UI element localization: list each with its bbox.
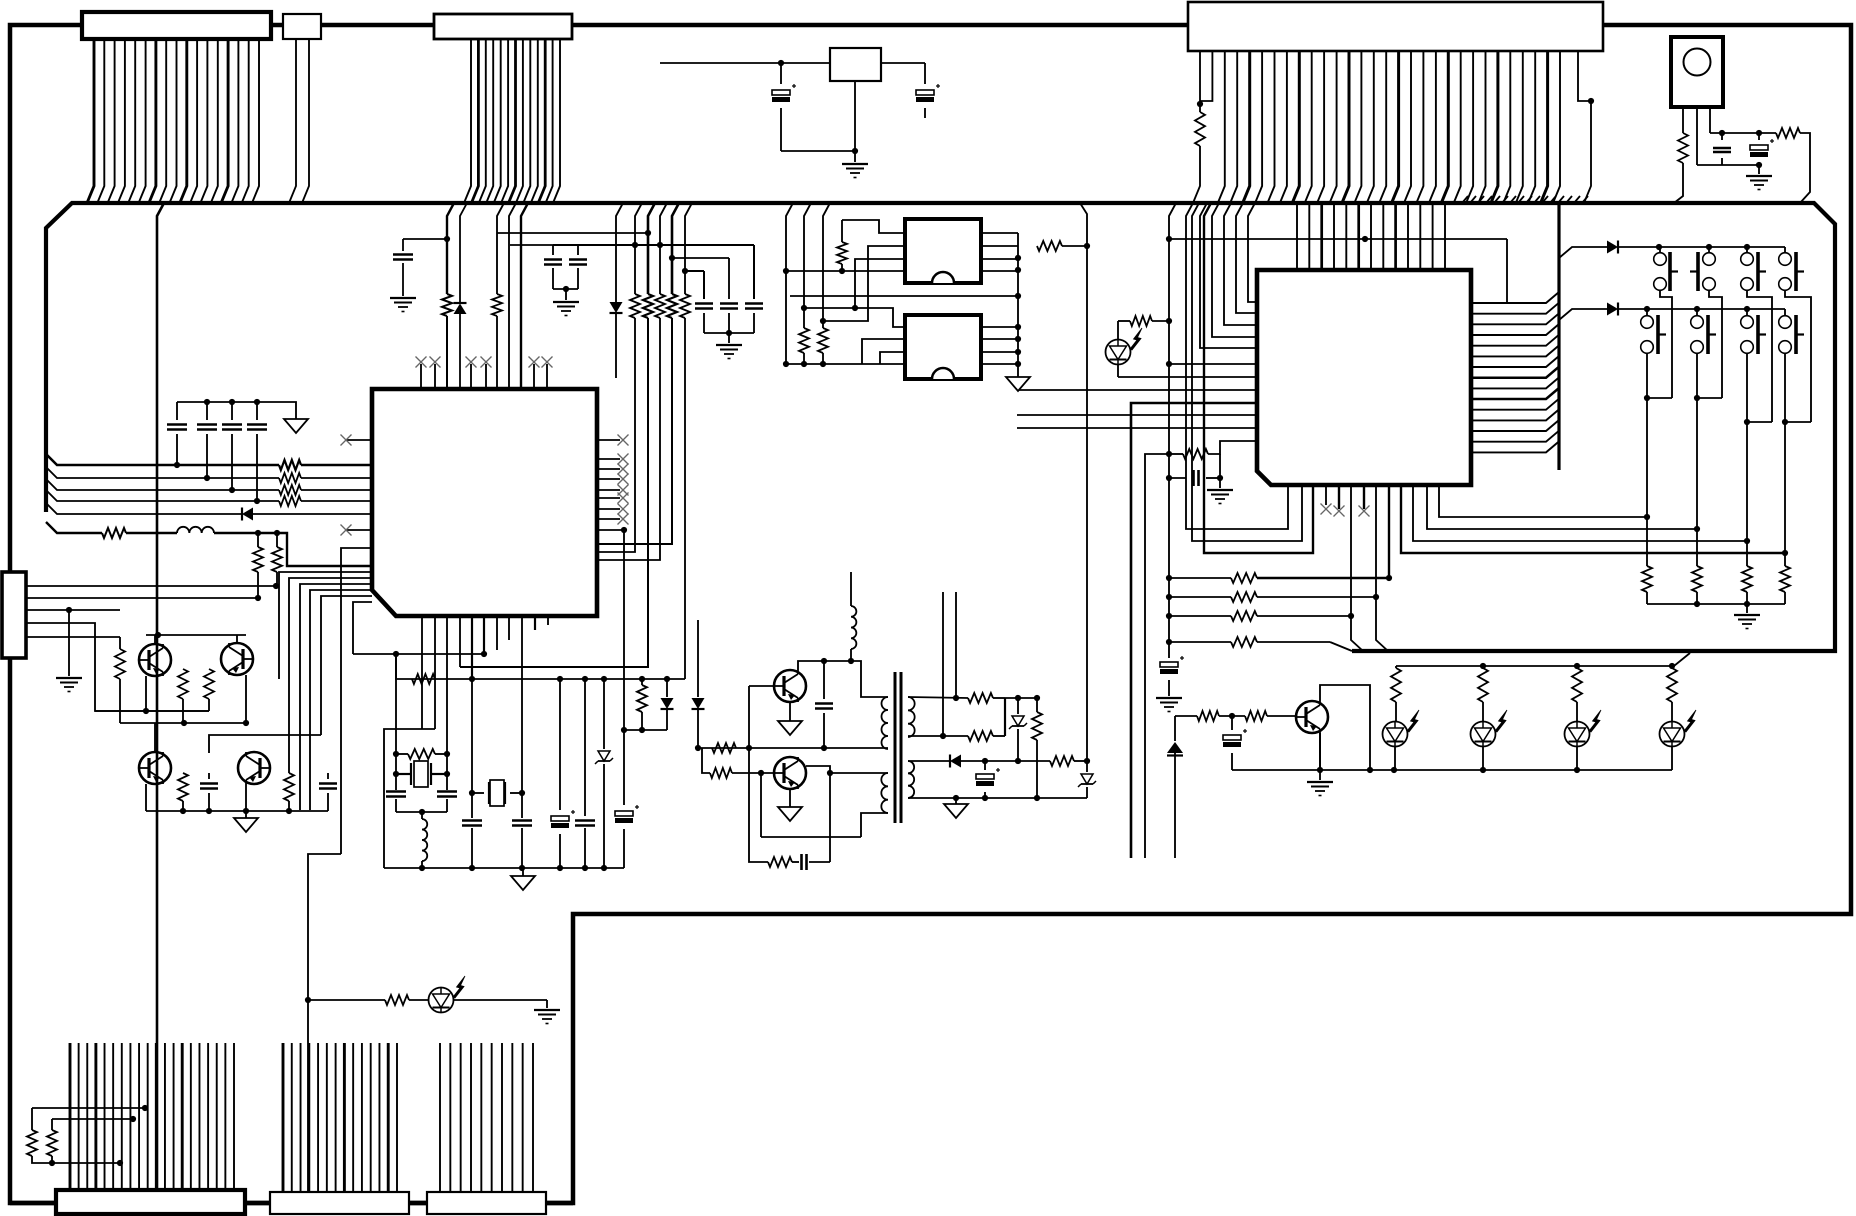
capacitor C filter2 [728, 258, 730, 299]
wire net616 with diode [616, 203, 623, 302]
wire bold pin403 [1131, 403, 1257, 858]
ground edge [68, 610, 70, 676]
diode D667 [666, 679, 668, 697]
wire U4 right pins [981, 326, 1018, 328]
ground triangle xtal rail [522, 868, 524, 876]
wire u3 feed to bus and down to zener [1080, 203, 1087, 761]
resistor R ir pullup [1776, 128, 1800, 138]
wire y748 to xfmr [698, 747, 888, 749]
wire IC1 right pin530 [597, 529, 624, 531]
wire row770 [1232, 769, 1672, 771]
switch SW3 [1746, 247, 1748, 252]
wire net A to caps [645, 230, 651, 236]
LED D ir-indicator [1106, 340, 1131, 365]
capacitor C rect electrolytic [984, 761, 986, 770]
resistor R key2 [1692, 566, 1702, 592]
connector CN2 (small) [283, 14, 321, 39]
connector CN3 [434, 14, 572, 39]
wire row239 [1169, 238, 1507, 240]
resistor R led4 [1671, 666, 1673, 668]
resistor R net685 [685, 203, 692, 294]
ground ir [1758, 165, 1760, 174]
wire U4 pin1 link [804, 308, 905, 327]
capacitor C xtal1b [437, 790, 457, 793]
wire IC2 bottom v1389 [1388, 485, 1390, 578]
resistor R drv1 [712, 743, 736, 753]
resistor R out [1050, 756, 1074, 766]
capacitor C ir electrolytic [1758, 133, 1760, 140]
resistor R led3 [1576, 666, 1578, 668]
capacitor C snub5 [823, 661, 825, 699]
resistor R led1 [1395, 666, 1397, 668]
wire U3 pin2 link [823, 246, 905, 321]
connector CN4 (main 30-pin) [1188, 2, 1603, 51]
capacitor C ir [1721, 133, 1723, 140]
diode D 1175 [1167, 742, 1183, 753]
wire bus-left wire1 (bold) [46, 454, 279, 465]
diode D key1 [1607, 241, 1618, 254]
ground rail xtal [384, 867, 624, 869]
capacitor C filter1 [703, 271, 705, 299]
resistor R cnA1 [32, 1107, 145, 1109]
connector CN6 pin fan [69, 1043, 72, 1190]
wire Q6 collector [806, 766, 888, 773]
wire bypass to ground [281, 402, 296, 419]
wire bus-left wire3 [46, 479, 279, 490]
resistor R emit Q4 [284, 773, 294, 801]
wire net D row271 [685, 270, 704, 272]
wire IC1 pin522 [521, 616, 523, 793]
wire row716 [1175, 715, 1197, 717]
wire snub up [829, 773, 831, 862]
wire col3 [1746, 353, 1748, 566]
wire key bus vertical (bold) [1557, 203, 1560, 470]
wire Q cluster top [146, 634, 246, 636]
wire col1 [1646, 353, 1648, 566]
wire key row1 feed [1559, 247, 1607, 258]
switch SW5 [1646, 309, 1648, 315]
resistor R net660 [660, 203, 667, 294]
crystal X1 node left [395, 654, 397, 790]
wire IC2 left pass-down bundle [1186, 203, 1288, 529]
resistor R cnA2 [52, 1118, 133, 1120]
transistor Q2 [221, 643, 253, 675]
transistor Q4 [238, 752, 270, 784]
wire led cathode [1117, 364, 1119, 377]
wire net308 down to CN_B [308, 854, 341, 1196]
wire IC2 bottom to bus v1351 [1351, 485, 1363, 651]
crystal X2 [488, 782, 490, 804]
switch SW4 [1784, 247, 1786, 252]
wire Q2 collector [236, 635, 238, 643]
resistor R u3 feed [1037, 241, 1062, 251]
resistor R key3 [1742, 566, 1752, 592]
wire col2 [1696, 353, 1698, 566]
resistor R led2 [385, 995, 409, 1005]
wire sec1 top lead [908, 697, 968, 698]
wire feeder group [289, 578, 372, 773]
connector CN4 pin fan [1200, 51, 1212, 101]
inductor L primary feed [850, 572, 852, 606]
wire Q3 feed [154, 723, 156, 752]
wire row364 to U4 [786, 363, 905, 365]
wire feed v956 [955, 592, 957, 698]
wire IC2 bottom nc pins [1325, 485, 1327, 505]
diode D key2 [1607, 303, 1618, 316]
capacitor C e624 electrolytic [623, 530, 625, 805]
wire row711 [95, 710, 209, 712]
connector CN3 pin fan [464, 39, 471, 203]
IC U1 (main microcontroller) [372, 389, 597, 616]
wire Q1 collector [154, 635, 156, 644]
wire row723 [120, 722, 246, 724]
zener D out [1086, 761, 1088, 772]
wire net B caps row [553, 244, 754, 246]
resistor R emit Q3 [178, 773, 188, 801]
IR leg1 with resistor [1682, 107, 1684, 133]
wire IC1 lower-left bundle [341, 548, 372, 854]
wire U3 pin3 link [855, 259, 905, 308]
ground under filter caps [716, 344, 742, 346]
wire U3 pin4 link [786, 270, 905, 272]
wire Q5 base [749, 685, 774, 687]
capacitor C input electrolytic [780, 63, 782, 84]
capacitor C q4 [327, 773, 329, 779]
IR leg3 node wire [1709, 107, 1711, 133]
resistor R led [1117, 321, 1119, 340]
wire U3 right pins [981, 232, 1018, 234]
wire led2 feed [308, 999, 385, 1001]
IC U2 (keyboard controller) [1257, 270, 1471, 485]
wire y730 [624, 729, 667, 731]
wire net823 [823, 203, 830, 328]
connector CN8 pin fan [439, 1043, 441, 1192]
regulator IC VR1 [830, 48, 881, 81]
LED D3 [1565, 722, 1590, 747]
resistor R 804 [799, 328, 809, 353]
inductor L xtal [421, 812, 423, 819]
wire col4 [1784, 353, 1786, 566]
resistor R above IC1 pin (net447) [447, 203, 454, 294]
wire IC1 left nc stub2 [346, 529, 372, 531]
ground Q7 [1319, 770, 1321, 780]
wire y679 row [396, 655, 685, 679]
wire net804 [804, 203, 811, 328]
transistor Q5 [774, 670, 806, 702]
capacitor C filter3 [753, 245, 755, 299]
connector CN2 pins [289, 39, 296, 203]
wire cap-pair top net B [510, 244, 553, 246]
wire IC1 top pin pair nc2 [470, 364, 472, 389]
wire bus left tail [1330, 642, 1352, 651]
resistor R642 [641, 679, 643, 685]
wire net509 [509, 203, 516, 389]
wire IC1 pin422 [421, 616, 423, 729]
resistor R net635 [635, 203, 642, 294]
IC U4 [905, 315, 981, 379]
wire sw3 bottom [1747, 290, 1772, 422]
resistor R sec1 [968, 693, 993, 703]
switch SW8 [1784, 309, 1786, 315]
ground triangle Q cluster [245, 811, 247, 818]
wire cap pair bottom [553, 288, 578, 290]
resistor R b1 [1197, 711, 1219, 721]
ground triangle U3/U4 [1006, 377, 1030, 391]
wire row811 [146, 810, 328, 812]
transformer T1 secondary upper [908, 697, 915, 737]
connector CN1 pin fan [87, 39, 94, 203]
ground led2 [534, 1009, 560, 1011]
zener D z604 [603, 679, 605, 749]
capacitor C xtal2b [512, 819, 532, 822]
resistor R b2 [1245, 711, 1267, 721]
wire edge w3 [26, 609, 120, 611]
capacitor C403 decoupling [403, 238, 447, 240]
capacitor C478 series [1169, 477, 1186, 479]
transistor Q3 [139, 752, 171, 784]
transistor Q6 [774, 757, 806, 789]
wire bus-left wire2 [46, 467, 279, 478]
transformer T1 primary lower [881, 773, 888, 813]
wire cap-pair top net A [497, 232, 648, 234]
wire primary bottom [861, 813, 888, 837]
ground C478 [1219, 478, 1221, 488]
ground triangle secondary [955, 798, 957, 804]
wire sw2 bottom [1709, 290, 1722, 398]
wire net521 [521, 203, 528, 389]
connector CN7 pin fan [282, 1043, 285, 1192]
connector CN1 [82, 12, 271, 39]
wire regulator gnd [854, 81, 856, 151]
wire bus-left wire4 [46, 490, 279, 501]
resistor R key1 [1642, 566, 1652, 592]
wire y654 [353, 653, 484, 655]
wire main bus outline (thick net) [46, 203, 1835, 651]
LED D1 [1383, 722, 1408, 747]
LED D5 [429, 988, 454, 1013]
wire feeder v279 [279, 572, 372, 679]
ground keypad [1746, 604, 1748, 613]
capacitor C bypass row (4x) [177, 401, 281, 403]
diode D net514 [242, 508, 253, 521]
wire row837 [761, 836, 861, 838]
wire net698 diode [697, 620, 699, 697]
resistor R 842 to U3 pin1 [842, 220, 905, 233]
resistor R led2 [1482, 666, 1484, 668]
zener D sec [1017, 698, 1019, 714]
transformer T1 secondary lower [908, 761, 914, 798]
wire Q7 emitter [1319, 733, 1321, 770]
wire Q6 base down [760, 773, 762, 837]
wire row296 [790, 295, 1018, 297]
IR receiver module U5 [1671, 37, 1723, 107]
wire edge w1 [26, 585, 276, 587]
capacitor C pair left [552, 245, 554, 255]
wire IC1 pin535 stub [534, 616, 536, 630]
ground triangle Q6 [789, 789, 791, 807]
crystal X1 [410, 763, 412, 785]
wire IC1 top pin pair nc3 [533, 364, 535, 389]
no-connect marks IC1 top 3 [529, 357, 540, 368]
transistor Q7 [1296, 701, 1328, 733]
wire IC1 pin435 [434, 616, 436, 729]
wire net V157 bus to bottom connector [157, 203, 164, 1196]
resistor R 823 [818, 328, 828, 353]
crystal X2 node left [471, 679, 473, 818]
wire net C row258 [672, 257, 729, 259]
ground triangle Q5 [789, 702, 791, 721]
resistor R net648 [648, 203, 655, 294]
wire key sense3 [1413, 485, 1747, 541]
capacitor C xtal2a [462, 819, 482, 822]
switch SW7 [1746, 309, 1748, 315]
resistor R base Q1 [119, 637, 121, 649]
resistor R row642 [1169, 641, 1231, 643]
wire IC2 bottom to bus v1376 [1376, 485, 1388, 651]
wire sw1 bottom [1660, 290, 1672, 398]
ground e1169 [1156, 697, 1182, 699]
transformer T1 primary upper [882, 697, 889, 749]
capacitor C1169 electrolytic [1160, 662, 1178, 667]
LED D2 [1471, 722, 1496, 747]
IC U3 [905, 219, 981, 283]
wire bus hatch joints [1462, 196, 1468, 203]
wire bus-left wire6 (bold) R+L [46, 522, 102, 533]
wire IC1 pin509 stub [508, 616, 510, 640]
wire Q4 base net [209, 735, 321, 753]
resistor R key4 [1780, 566, 1790, 592]
crystal X1 node right [446, 616, 448, 790]
ground under C403 [390, 297, 416, 299]
resistor R row616 [1169, 615, 1231, 617]
wire sec2 top lead with diode [908, 760, 950, 762]
diode D net616 [610, 302, 623, 313]
connector CN8 [427, 1192, 546, 1214]
wire key sense2 [1427, 485, 1697, 529]
IR leg2 to ground [1696, 107, 1698, 165]
resistor R sec2 [968, 731, 993, 741]
capacitor C output electrolytic [924, 63, 926, 84]
connector CN6 [56, 1190, 245, 1214]
capacitor C e560 electrolytic [559, 679, 561, 810]
wire edge w5 [26, 636, 120, 638]
switch SW6 [1696, 309, 1698, 315]
wire snubber loop [749, 748, 768, 862]
wire edge w4 [26, 623, 209, 711]
diode D above IC1 pin (net460) [460, 203, 467, 303]
wire key row2 feed [1559, 309, 1607, 320]
wire caps bottom [704, 332, 754, 334]
connector CN5 (edge) [2, 572, 26, 658]
wire bus-left wire5 with diode [46, 503, 242, 514]
wire border stubs [10, 1201, 56, 1206]
wire led2 out [453, 999, 547, 1001]
wire net786 [786, 203, 793, 364]
resistor R xtal1 [408, 749, 435, 759]
wire sec bottom rail [908, 797, 1087, 799]
no-connect marks IC1 top 2 [466, 357, 477, 368]
wire key resistor rail [1647, 603, 1785, 605]
wire xtal1 bottom [396, 811, 447, 813]
resistor R row578 (bold) [1169, 577, 1231, 579]
resistor R snub [768, 857, 792, 867]
capacitor C xtal1a [386, 790, 406, 793]
wire IC1 top pin pair nc1 [420, 364, 422, 389]
capacitor C snub series [800, 854, 803, 870]
wire led supply row666 [1396, 653, 1690, 666]
transistor Q1 [139, 644, 171, 676]
resistor R sec3 [1036, 698, 1038, 712]
wire IC2 top pins [1296, 203, 1298, 270]
connector CN7 [270, 1192, 409, 1214]
wire IC1 left nc stub1 [346, 439, 372, 441]
capacitor C 585 [584, 679, 586, 816]
wire edge w2 [26, 597, 258, 599]
wire IC1 pin484 [483, 616, 485, 654]
wire IC1 pin497 stub [496, 616, 498, 650]
resistor R net276 [276, 533, 278, 547]
capacitor C b electrolytic [1231, 716, 1233, 730]
inductor L line [177, 527, 214, 533]
wire net1169 main [1169, 203, 1176, 658]
switch SW2 [1708, 247, 1710, 252]
wire sec bracket [1004, 698, 1006, 736]
wire key sense4 (bold) [1401, 485, 1785, 553]
wire sec1 bot lead [908, 735, 968, 737]
LED D4 [1660, 722, 1685, 747]
wire gnd row390 [1019, 389, 1257, 391]
wire IC2 left bundle [1248, 203, 1257, 302]
connector CN4 pin1 with resistor R301 [1199, 51, 1201, 112]
wire rows415-428 [1017, 414, 1257, 416]
capacitor C q3 [208, 773, 210, 779]
no-connect stubs IC1 right [597, 439, 620, 441]
wire feed v943 [942, 592, 944, 736]
wire Q7 collector [1320, 685, 1370, 770]
wire IC1 pin460 [459, 616, 461, 667]
wire regulator input [660, 62, 830, 64]
no-connect marks IC1 top 1 [416, 357, 427, 368]
transformer T1 core [894, 672, 897, 823]
wire IC1 pin472 (bold) [471, 616, 473, 679]
wire net1018 vertical [1017, 233, 1019, 377]
wire IC1 pin548 stub [547, 616, 549, 625]
resistor R on net497 [497, 203, 504, 294]
diode D rect [950, 755, 961, 768]
resistor R454 [1169, 453, 1183, 455]
resistor R drv2 [710, 768, 732, 778]
wire v1175 diode [1174, 716, 1176, 741]
wire xtal net left rail [384, 729, 435, 868]
wire sw4 bottom [1785, 290, 1811, 422]
resistor R mid2 [204, 669, 214, 699]
wire row364 [1169, 363, 1257, 365]
resistor R net672 [672, 203, 679, 294]
ground under cap pair [553, 301, 579, 303]
wire IC2 right pin fan [1471, 292, 1559, 303]
wire U4 pin2 link [862, 339, 905, 364]
wire key sense1 [1439, 485, 1647, 517]
resistor R net257 [257, 533, 259, 547]
resistor R mid1 [182, 668, 184, 670]
ground triangle bypass [284, 419, 308, 433]
resistor R row597 [1169, 596, 1231, 598]
wire v1145 [1145, 454, 1169, 858]
wire Q5 collector [798, 661, 888, 697]
switch SW1 [1659, 247, 1661, 252]
wire U4 pin3 link [880, 352, 905, 364]
wire regulator output [881, 62, 925, 64]
